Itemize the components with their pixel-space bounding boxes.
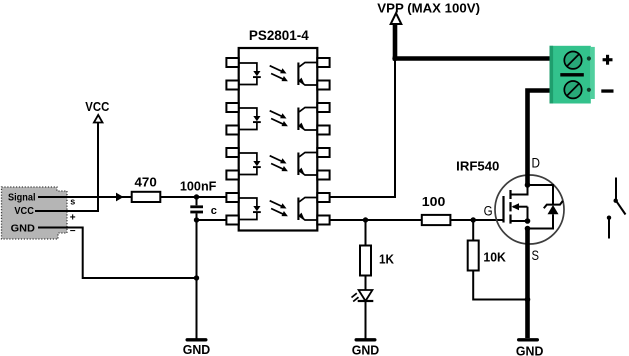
ground symbol middle <box>352 338 380 356</box>
U1 channel 4 light arrows <box>270 201 288 217</box>
U1 channel 3 phototransistor <box>298 153 317 176</box>
Q1 body diode (zener) <box>528 185 563 229</box>
svg-text:IRF540: IRF540 <box>456 159 499 174</box>
junction node source/body <box>525 218 531 224</box>
svg-text:100nF: 100nF <box>180 178 217 193</box>
U1 pin 5 (left) <box>226 148 238 157</box>
U1 pin 12 (right) <box>317 148 329 157</box>
U1 pin 9 (right) <box>317 216 329 225</box>
U1 channel 1 phototransistor <box>298 63 317 86</box>
signal direction arrowhead <box>116 193 124 202</box>
svg-text:GND: GND <box>516 343 544 356</box>
svg-text:PS2801-4: PS2801-4 <box>249 28 309 43</box>
junction node at capacitor bottom <box>194 217 199 222</box>
svg-text:GND: GND <box>352 343 380 356</box>
thick wire source to ground <box>525 229 530 339</box>
junction node 10K branch <box>471 217 476 222</box>
VCC supply symbol (open arrow) <box>85 100 109 122</box>
svg-text:470: 470 <box>135 175 157 190</box>
U1 pin 1 (left) <box>226 58 238 67</box>
junction node drain <box>525 182 531 188</box>
svg-text:+: + <box>70 212 76 223</box>
wire IC pin9 to node <box>330 219 422 221</box>
Q1 channel segments <box>509 190 511 224</box>
junction node diode return <box>525 226 531 232</box>
terminal block TB1 <box>550 46 595 104</box>
wire GND from connector down-right to ground rail <box>38 228 197 279</box>
svg-text:GND: GND <box>11 223 36 235</box>
resistor 10K <box>468 241 507 271</box>
svg-text:Signal: Signal <box>8 192 36 203</box>
svg-text:1K: 1K <box>379 252 395 267</box>
U1 pin 16 (right) <box>317 58 329 67</box>
Q1 gate bar <box>502 196 504 223</box>
svg-text:S: S <box>532 248 540 263</box>
Q1 body circle <box>495 175 564 244</box>
Q1 drain internal connection <box>511 185 528 195</box>
wire VCC from connector up to VCC symbol <box>35 122 98 211</box>
U1 channel 4 phototransistor <box>298 198 317 221</box>
wire 10K to source rail <box>473 271 527 300</box>
ground rail wire (left) <box>196 220 198 339</box>
resistor 470 <box>132 175 161 202</box>
junction node 1K branch <box>363 217 368 222</box>
svg-text:VCC: VCC <box>14 206 34 217</box>
terminal label - <box>601 89 613 92</box>
U1 channel 1 internal LED <box>239 63 261 85</box>
U1 channel 2 phototransistor <box>298 108 317 131</box>
junction node 10K return <box>525 297 531 303</box>
U1 pin 7 (left) <box>226 193 238 202</box>
U1 pin 14 (right) <box>317 103 329 112</box>
ground symbol right <box>516 338 544 356</box>
junction node VPP branch <box>392 56 397 61</box>
VPP supply symbol (open arrow) <box>377 0 480 24</box>
ground symbol left <box>183 338 211 356</box>
svg-text:100: 100 <box>422 194 446 209</box>
U1 pin 13 (right) <box>317 126 329 135</box>
U1 pin 15 (right) <box>317 81 329 90</box>
U1 pin 6 (left) <box>226 171 238 180</box>
junction node gnd rail / connector gnd <box>194 275 199 280</box>
U1 pin 11 (right) <box>317 171 329 180</box>
svg-text:10K: 10K <box>483 249 506 264</box>
U1 pin 8 (left) <box>226 216 238 225</box>
svg-text:G: G <box>484 203 493 218</box>
LED D1 indicator <box>352 290 374 302</box>
U1 channel 3 internal LED <box>239 153 261 175</box>
U1 pin 4 (left) <box>226 126 238 135</box>
junction node at capacitor top <box>194 194 199 199</box>
svg-text:D: D <box>532 155 541 170</box>
resistor 100 <box>422 194 451 225</box>
U1 pin 2 (left) <box>226 81 238 90</box>
terminal label + <box>603 55 613 65</box>
svg-text:c: c <box>211 205 217 217</box>
thick wire VPP to terminal + <box>393 56 550 61</box>
wire R470 to C node and IC pin7 <box>160 196 226 198</box>
wire capacitor bottom to IC pin8 <box>197 219 227 221</box>
wire node to 10K <box>472 220 474 241</box>
wire node to 1K <box>365 220 367 246</box>
svg-text:VCC: VCC <box>85 100 109 114</box>
op-amp U1 PS2801-4 quad optocoupler body <box>239 28 318 231</box>
U1 pin 3 (left) <box>226 103 238 112</box>
U1 channel 2 internal LED <box>239 108 261 130</box>
resistor 1K <box>360 246 395 276</box>
wire IC pin10 to VPP rail <box>330 58 395 197</box>
svg-text:GND: GND <box>183 342 211 356</box>
U1 channel 3 light arrows <box>270 156 288 172</box>
VPP thick riser <box>393 24 398 59</box>
Q1 source internal connection <box>511 220 528 222</box>
wire LED to ground <box>365 301 367 339</box>
switch S1 (open) <box>607 178 626 239</box>
connector block J1 (Signal/VCC/GND header) <box>2 187 68 239</box>
wire signal from connector to R 470 <box>38 196 132 198</box>
U1 channel 1 light arrows <box>270 66 288 82</box>
U1 channel 2 light arrows <box>270 111 288 127</box>
U1 pin 10 (right) <box>317 193 329 202</box>
thick wire terminal - to drain <box>528 91 551 186</box>
wire 1K to LED <box>365 276 367 291</box>
svg-text:VPP (MAX 100V): VPP (MAX 100V) <box>377 0 480 15</box>
capacitor C 100nF <box>180 178 217 220</box>
Q1 body arrow <box>512 203 528 221</box>
wire 100 to gate <box>450 219 503 221</box>
U1 channel 4 internal LED <box>239 198 261 220</box>
